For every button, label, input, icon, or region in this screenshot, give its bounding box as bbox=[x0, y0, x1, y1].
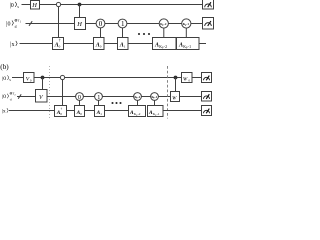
gate V0 (b wire 1) bbox=[24, 73, 35, 83]
circle gate 0 (b wire 2) bbox=[76, 93, 84, 101]
svg-text:d: d bbox=[15, 25, 17, 29]
label |x> (a wire 3) bbox=[10, 41, 17, 48]
wire b1 main segment bbox=[34, 77, 182, 79]
wire b2 segment bbox=[47, 96, 76, 98]
wire a1 main segment bbox=[40, 4, 203, 6]
svg-text:0: 0 bbox=[100, 45, 102, 49]
svg-text:-2: -2 bbox=[138, 112, 141, 116]
wire b3 segment bbox=[67, 110, 75, 112]
svg-text:|0: |0 bbox=[2, 94, 6, 100]
wire: control line to A_{KP-1} bbox=[185, 28, 187, 37]
gate A1 (a wire 3) bbox=[118, 38, 129, 50]
gate V (b wire 2, controlled) bbox=[36, 90, 48, 103]
control dot on a1 bbox=[78, 3, 82, 7]
circle gate K_P-1 (b wire 2) bbox=[151, 93, 159, 101]
wire a3 segment bbox=[64, 43, 94, 45]
wire: control line from open circle down to A0-dagger bbox=[58, 7, 60, 38]
svg-text:0: 0 bbox=[78, 94, 81, 101]
wire b2 segment bbox=[102, 96, 133, 98]
wire a2 segment bbox=[168, 23, 181, 25]
svg-text:1: 1 bbox=[121, 20, 125, 28]
svg-text:0: 0 bbox=[189, 79, 191, 83]
svg-text:W: W bbox=[183, 76, 188, 82]
svg-text:-1: -1 bbox=[186, 22, 189, 26]
svg-text:-2: -2 bbox=[164, 22, 167, 26]
meter M3b (measurement, b wire 3) bbox=[202, 106, 212, 116]
wire b1 left segment bbox=[12, 77, 24, 79]
dotted barrier line 1 bbox=[49, 66, 51, 119]
otimes symbol bbox=[10, 92, 12, 94]
svg-text:2: 2 bbox=[14, 93, 16, 96]
svg-text:|0: |0 bbox=[2, 76, 6, 82]
svg-text:W: W bbox=[172, 95, 177, 101]
wire: control line from dot down to W on b2 bbox=[175, 78, 177, 92]
gate W (b wire 2, controlled) bbox=[171, 92, 180, 102]
wire a2 right segment bbox=[191, 23, 203, 25]
gate A_{KP-1} (a wire 3) bbox=[177, 38, 200, 50]
wire b2 right segment bbox=[180, 96, 202, 98]
wire: control line from dot down to H on a2 bbox=[79, 5, 81, 18]
svg-text:A: A bbox=[154, 42, 159, 48]
svg-text:-1: -1 bbox=[157, 112, 160, 116]
dashed barrier line 2 bbox=[167, 66, 169, 119]
svg-text:s: s bbox=[9, 78, 11, 82]
svg-text:1: 1 bbox=[20, 21, 22, 24]
wire a2 segment bbox=[86, 23, 97, 25]
circle gate K_P-2 (b wire 2) bbox=[134, 93, 142, 101]
wire b2 left segment bbox=[17, 96, 36, 98]
svg-text:H: H bbox=[31, 2, 37, 9]
gate A1 (b wire 3) bbox=[95, 106, 105, 117]
ellipsis dots (b) bbox=[111, 102, 121, 104]
meter M1a (measurement, a wire 1) bbox=[203, 0, 214, 9]
gate A_{KP-2} (b wire 3) bbox=[129, 106, 146, 117]
svg-text:0: 0 bbox=[99, 20, 103, 28]
svg-text:|0: |0 bbox=[6, 21, 10, 27]
gate W0 (b wire 1) bbox=[182, 73, 193, 83]
svg-text:1: 1 bbox=[97, 94, 100, 101]
gate A0-dagger (a wire 3) bbox=[53, 38, 64, 50]
wire b3 segment bbox=[105, 110, 129, 112]
wire a3 segment bbox=[128, 43, 153, 45]
label |x> (b wire 3) bbox=[2, 108, 8, 115]
wire: control line circle0 to A0 bbox=[100, 28, 102, 38]
wire: control line to A_{KP-1}b bbox=[154, 100, 156, 105]
wire a3 left segment bbox=[20, 43, 53, 45]
wire b2 segment bbox=[141, 96, 150, 98]
meter M2a (measurement, a wire 2) bbox=[203, 18, 214, 30]
svg-text:|x: |x bbox=[2, 109, 6, 115]
gate A0 (a wire 3) bbox=[94, 38, 105, 50]
svg-text:d: d bbox=[10, 97, 12, 101]
wire a2 segment bbox=[105, 23, 118, 25]
wire a3 right segment bbox=[199, 43, 206, 45]
svg-text:A: A bbox=[178, 42, 183, 48]
svg-text:†: † bbox=[61, 107, 63, 111]
wire: control line from open circle down to A0-dagger (b) bbox=[62, 80, 64, 106]
slash (multi-qubit marker) on b2 bbox=[18, 94, 21, 98]
wire b3 segment bbox=[85, 110, 95, 112]
gate H (a wire 2, controlled) bbox=[75, 18, 86, 30]
svg-text:|x: |x bbox=[10, 42, 14, 48]
svg-text:0: 0 bbox=[59, 45, 61, 49]
svg-text:s: s bbox=[17, 4, 19, 9]
wire: control line circle0b to A0b bbox=[79, 100, 81, 105]
svg-text:1: 1 bbox=[124, 45, 126, 49]
wire b3 right segment bbox=[163, 110, 202, 112]
svg-text:0: 0 bbox=[80, 112, 82, 116]
slash (multi-qubit marker) on a2 bbox=[29, 21, 32, 26]
wire b1 right segment bbox=[192, 77, 202, 79]
gate H (a wire 1) bbox=[31, 1, 40, 10]
circle gate 0 (a wire 2) bbox=[96, 19, 105, 28]
svg-text:0: 0 bbox=[60, 112, 62, 116]
circle gate 1 (b wire 2) bbox=[95, 93, 103, 101]
wire a1 left segment bbox=[22, 4, 31, 6]
svg-text:1: 1 bbox=[100, 112, 102, 116]
gate A_{KP-1} (b wire 3) bbox=[148, 106, 164, 117]
circle gate K_P-2 (a wire 2) bbox=[159, 19, 168, 28]
gate A_{KP-2} (a wire 3) bbox=[153, 38, 177, 50]
wire: control line to A_{KP-2} bbox=[163, 28, 165, 37]
svg-text:-1: -1 bbox=[188, 45, 191, 49]
wire: control line from dot down to V on b2 bbox=[42, 78, 44, 90]
wire a2 segment bbox=[127, 23, 159, 25]
svg-text:(b): (b) bbox=[0, 63, 9, 71]
svg-text:†: † bbox=[59, 39, 61, 43]
label |0>_s (b wire 1) bbox=[2, 75, 11, 82]
wire a2 left segment bbox=[26, 23, 75, 25]
label |0>_d^{oxT1} (a wire 2) bbox=[6, 19, 21, 29]
wire: control line circle1b to A1b bbox=[98, 100, 100, 105]
wire a3 segment bbox=[104, 43, 118, 45]
svg-text:V: V bbox=[39, 95, 44, 101]
wire b2 segment to W bbox=[158, 96, 170, 98]
anti-control (open circle) on a1 bbox=[56, 2, 60, 6]
wire: control line to A_{KP-2}b bbox=[137, 100, 139, 105]
control dot on b1 (to W) bbox=[174, 76, 178, 80]
svg-text:H: H bbox=[76, 21, 82, 28]
circle gate K_P-1 (a wire 2) bbox=[182, 19, 191, 28]
label |0>_s (a wire 1) bbox=[10, 2, 20, 9]
gate A0-dagger (b wire 3) bbox=[55, 106, 67, 117]
circle gate 1 (a wire 2) bbox=[118, 19, 127, 28]
svg-text:|0: |0 bbox=[10, 3, 14, 9]
control dot on b1 (to V) bbox=[41, 76, 45, 80]
meter M2b (measurement, b wire 2) bbox=[202, 92, 212, 102]
wire b2 segment bbox=[83, 96, 94, 98]
svg-text:-2: -2 bbox=[164, 45, 167, 49]
label |0>_d^{oxT2} (b wire 2) bbox=[2, 92, 16, 102]
label (b) bbox=[0, 63, 9, 71]
wire: control line circle1 to A1 bbox=[122, 28, 124, 38]
wire b3 left segment bbox=[9, 110, 55, 112]
anti-control (open circle) on b1 bbox=[60, 75, 64, 79]
meter M1b (measurement, b wire 1) bbox=[202, 73, 212, 83]
gate A0 (b wire 3) bbox=[75, 106, 85, 117]
ellipsis dots (a) bbox=[138, 33, 150, 35]
otimes symbol bbox=[15, 19, 17, 21]
